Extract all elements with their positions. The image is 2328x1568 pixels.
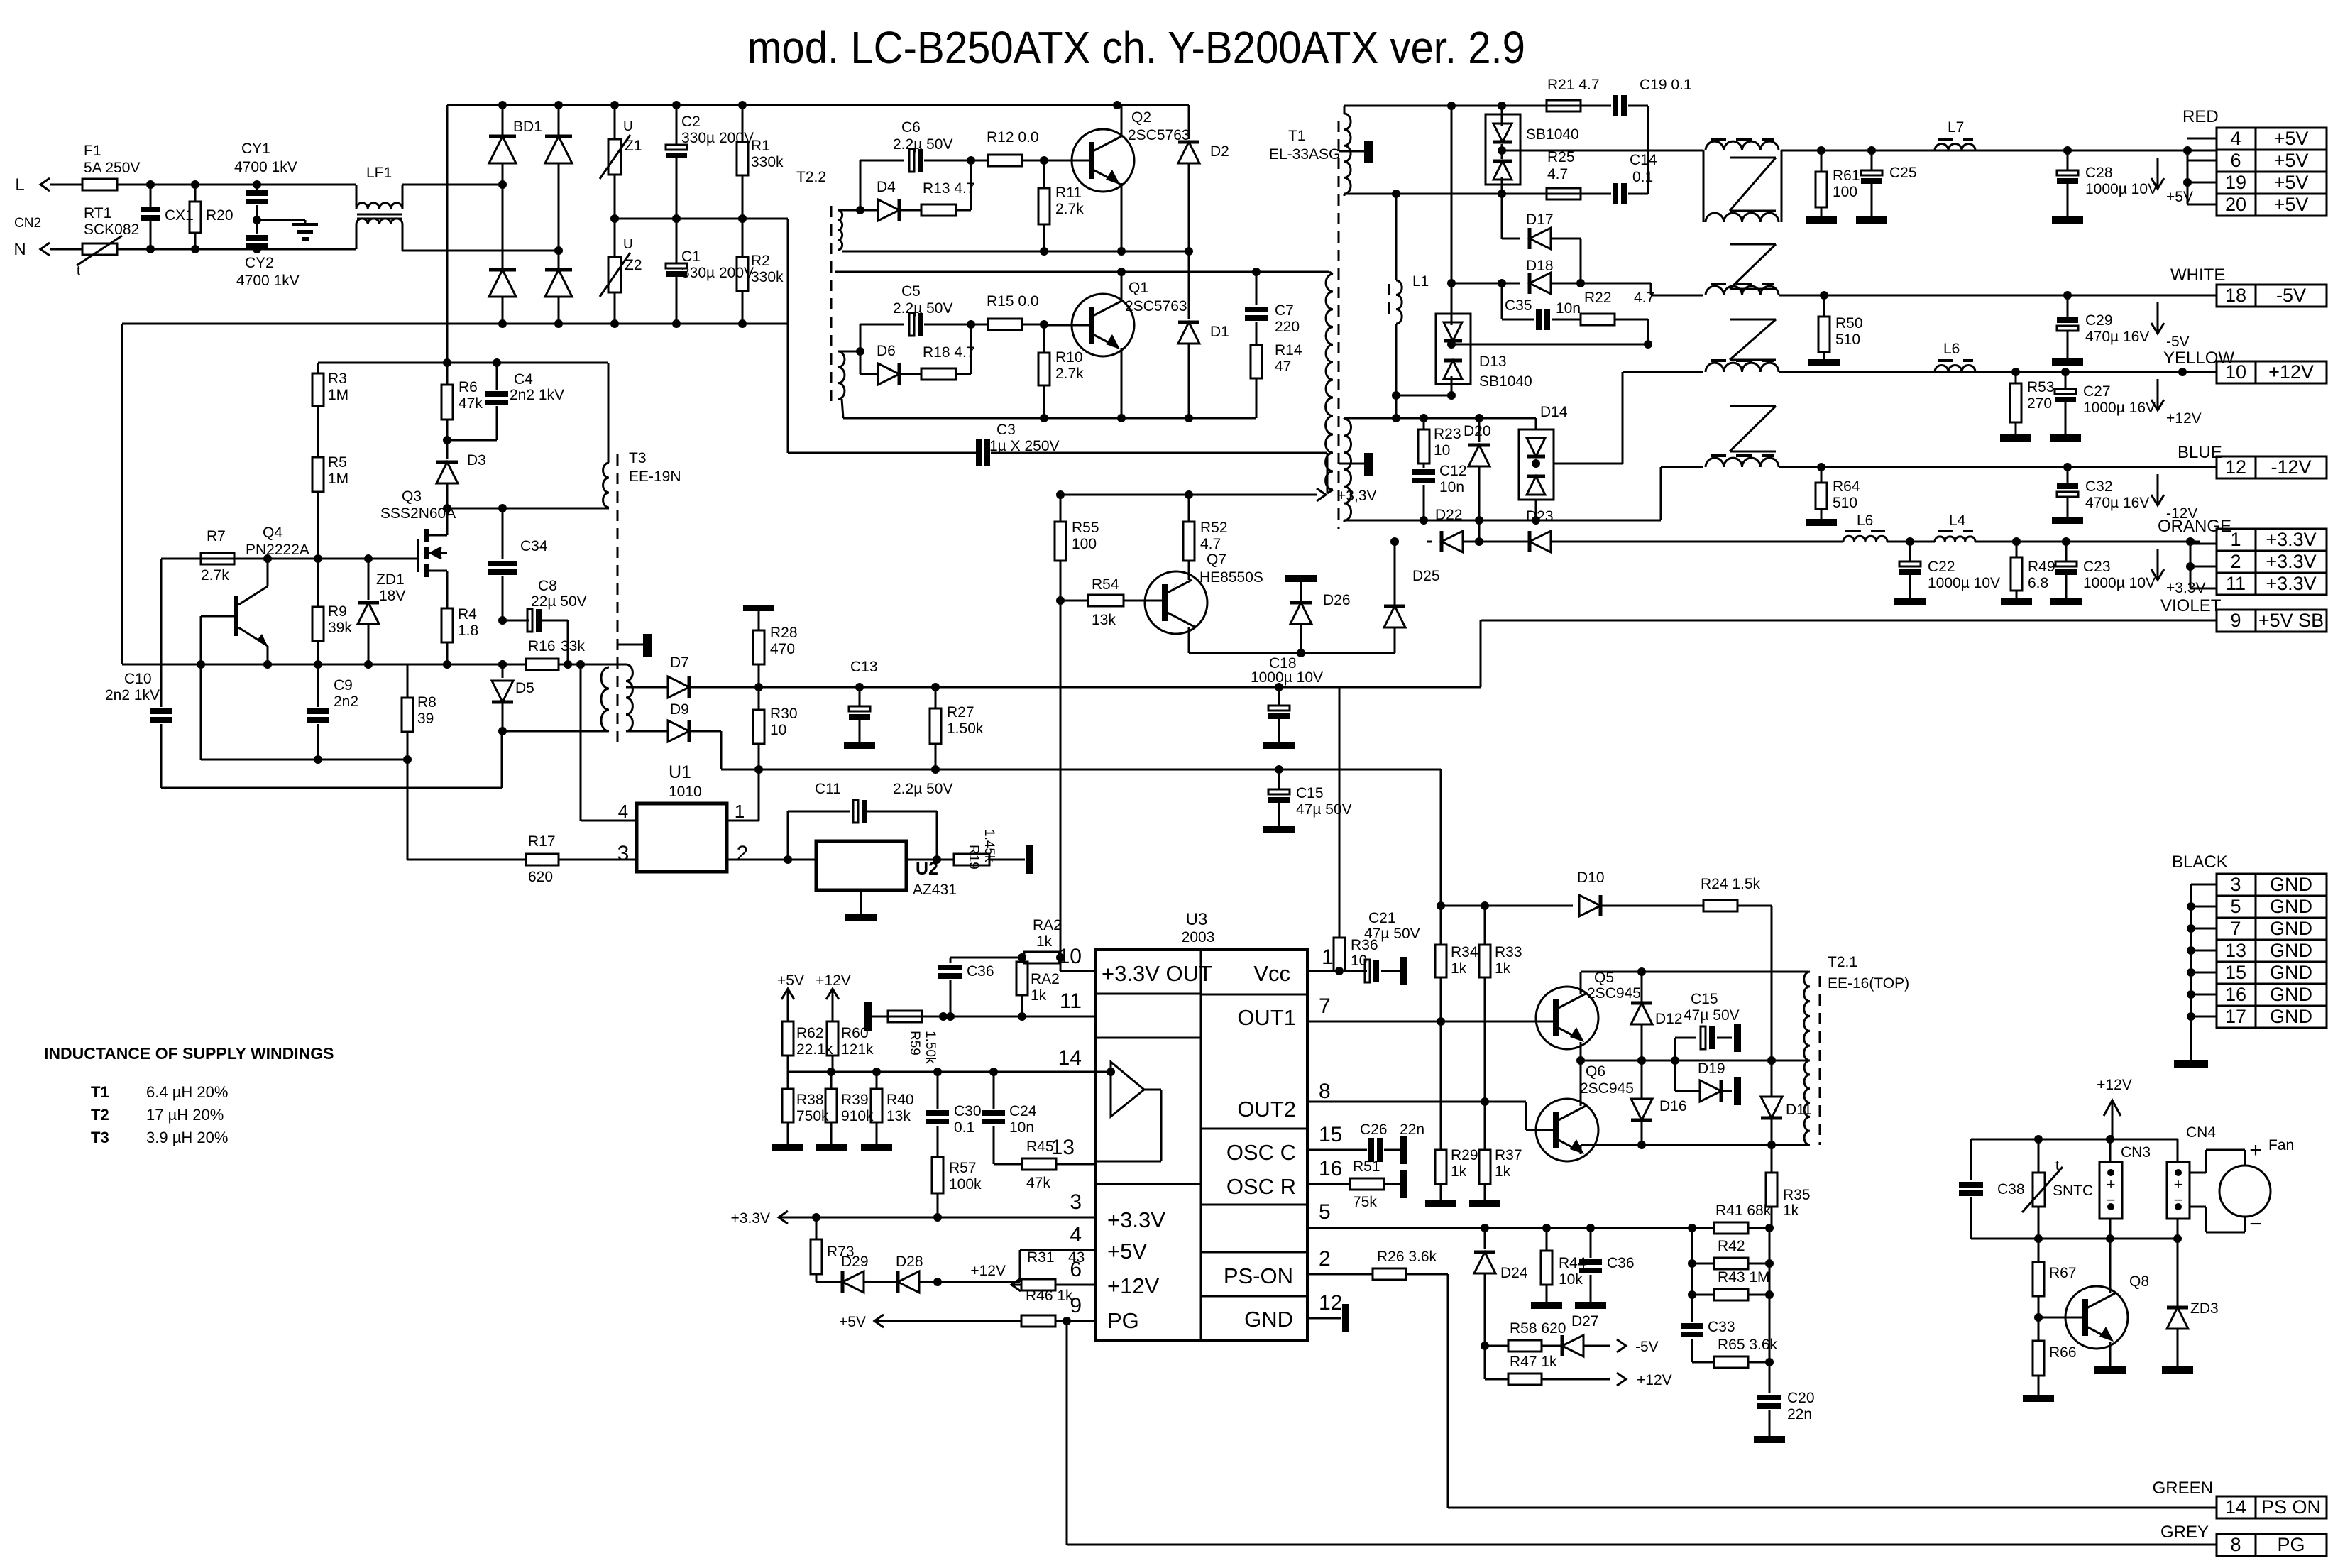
resistor R2 xyxy=(737,219,784,324)
svg-text:Q4: Q4 xyxy=(263,525,282,541)
resistor R51 xyxy=(1307,1158,1407,1210)
svg-text:470µ 16V: 470µ 16V xyxy=(2085,329,2149,345)
wire +3.3V rail xyxy=(1843,537,2200,546)
svg-text:16: 16 xyxy=(1319,1157,1342,1180)
svg-text:R12 0.0: R12 0.0 xyxy=(987,129,1039,146)
svg-text:1.45k: 1.45k xyxy=(982,829,996,862)
wire fan mid rail xyxy=(1971,1234,2182,1243)
svg-text:47: 47 xyxy=(1275,358,1291,375)
svg-text:D9: D9 xyxy=(670,701,689,718)
resistor R21 xyxy=(1547,77,1611,111)
svg-text:1µ X 250V: 1µ X 250V xyxy=(989,438,1060,454)
svg-text:1k: 1k xyxy=(1495,960,1511,977)
svg-text:RED: RED xyxy=(2182,107,2219,126)
svg-text:Q8: Q8 xyxy=(2129,1273,2149,1290)
svg-text:D14: D14 xyxy=(1540,404,1568,420)
svg-text:17 µH 20%: 17 µH 20% xyxy=(146,1106,224,1124)
svg-text:R52: R52 xyxy=(1200,520,1228,536)
resistor R5 xyxy=(312,454,348,559)
svg-text:2.7k: 2.7k xyxy=(201,567,229,583)
ic U1 xyxy=(617,762,749,872)
wire xyxy=(1651,283,1703,295)
resistor R44 xyxy=(1531,1228,1586,1309)
svg-text:22n: 22n xyxy=(1400,1122,1424,1138)
svg-text:CY2: CY2 xyxy=(245,255,274,271)
svg-text:-5V: -5V xyxy=(2276,285,2306,306)
svg-text:0.1: 0.1 xyxy=(954,1119,974,1136)
resistor R58 xyxy=(1485,1320,1566,1352)
svg-text:10k: 10k xyxy=(1559,1271,1583,1288)
wire xyxy=(727,769,759,821)
svg-text:1000µ 10V: 1000µ 10V xyxy=(2085,181,2158,197)
svg-text:39k: 39k xyxy=(328,620,352,636)
resistor R36 xyxy=(1334,686,1378,971)
svg-text:PG: PG xyxy=(2277,1534,2305,1555)
svg-text:+5V: +5V xyxy=(2274,128,2309,149)
svg-text:100: 100 xyxy=(1833,184,1857,200)
capacitor C24 xyxy=(982,1072,1037,1164)
resistor R64 xyxy=(1806,467,1860,526)
capacitor C36b xyxy=(1575,1228,1635,1309)
svg-text:R53: R53 xyxy=(2027,379,2055,395)
svg-text:C29: C29 xyxy=(2085,312,2113,329)
capacitor C23 xyxy=(2050,542,2156,605)
transformer T3 xyxy=(601,450,681,742)
svg-text:510: 510 xyxy=(1833,495,1857,511)
svg-text:D4: D4 xyxy=(877,179,896,195)
svg-text:R5: R5 xyxy=(328,454,347,471)
svg-text:R46 1k: R46 1k xyxy=(1026,1288,1073,1304)
svg-text:1000µ 16V: 1000µ 16V xyxy=(2083,400,2156,416)
resistor R41 xyxy=(1714,1202,1772,1234)
resistor R49 xyxy=(2001,542,2055,605)
svg-text:C38: C38 xyxy=(1997,1181,2025,1197)
svg-text:1: 1 xyxy=(1322,945,1334,969)
wire xyxy=(626,730,667,733)
svg-text:13: 13 xyxy=(1051,1136,1075,1159)
svg-text:R28: R28 xyxy=(770,625,798,641)
svg-text:SB1040: SB1040 xyxy=(1526,126,1579,143)
svg-text:D6: D6 xyxy=(877,343,896,359)
svg-text:47µ 50V: 47µ 50V xyxy=(1684,1007,1740,1024)
diode BD1-b xyxy=(545,105,572,251)
svg-text:+12V: +12V xyxy=(2268,361,2314,383)
svg-text:GND: GND xyxy=(2270,896,2312,917)
wire -5V rail xyxy=(1779,291,2217,300)
svg-text:39: 39 xyxy=(417,711,434,727)
wire +12V rail xyxy=(1779,368,2217,376)
svg-text:C28: C28 xyxy=(2085,165,2113,181)
svg-text:D29: D29 xyxy=(841,1254,869,1270)
wire pin10 xyxy=(1060,970,1095,972)
svg-text:19: 19 xyxy=(2225,172,2246,193)
capacitor CY2 xyxy=(236,216,300,289)
svg-text:L7: L7 xyxy=(1948,119,1964,136)
svg-text:AZ431: AZ431 xyxy=(913,882,957,898)
svg-text:RT1: RT1 xyxy=(84,205,111,221)
svg-text:5: 5 xyxy=(2230,896,2241,917)
diode BD1-c xyxy=(489,185,516,324)
svg-text:+5V: +5V xyxy=(839,1314,866,1330)
svg-text:R35: R35 xyxy=(1783,1187,1811,1203)
svg-text:R2: R2 xyxy=(751,253,770,269)
resistor R37 xyxy=(1469,1102,1522,1207)
transformer T1 lower sec xyxy=(1339,398,1536,529)
svg-text:1M: 1M xyxy=(328,387,348,403)
capacitor C20 xyxy=(1754,1390,1815,1443)
svg-text:C25: C25 xyxy=(1889,165,1917,181)
svg-text:2n2 1kV: 2n2 1kV xyxy=(105,687,160,703)
svg-text:C14: C14 xyxy=(1630,152,1657,168)
capacitor C5 xyxy=(860,283,975,351)
diode BD1-a xyxy=(489,105,516,185)
svg-text:D12: D12 xyxy=(1655,1011,1683,1027)
bridge BD1 label xyxy=(513,119,542,135)
resistor R40 xyxy=(861,1072,914,1151)
connector -5V pin xyxy=(2217,285,2327,307)
capacitor C11 xyxy=(788,781,953,864)
wire 5VSB line xyxy=(721,765,1441,774)
wire xyxy=(1661,467,1703,520)
svg-text:PG: PG xyxy=(1107,1308,1139,1333)
diode D19 xyxy=(1675,1038,1741,1105)
svg-text:6.8: 6.8 xyxy=(2028,575,2048,591)
svg-text:7: 7 xyxy=(2230,918,2241,939)
svg-text:7: 7 xyxy=(1319,994,1331,1018)
svg-text:GND: GND xyxy=(2270,984,2312,1005)
resistor R22 xyxy=(1556,290,1654,344)
arrow -5V xyxy=(2151,302,2190,350)
svg-text:R30: R30 xyxy=(770,706,798,722)
node RED xyxy=(2182,107,2219,126)
resistor R73 xyxy=(811,1217,855,1282)
resistor R33 xyxy=(1479,906,1522,1106)
svg-text:4: 4 xyxy=(618,801,628,822)
resistor R25 xyxy=(1547,149,1611,199)
svg-text:11: 11 xyxy=(1060,989,1082,1013)
title xyxy=(747,22,1525,73)
wire xyxy=(402,246,563,255)
svg-text:+3.3V: +3.3V xyxy=(2266,551,2316,572)
wire sec bot xyxy=(1344,190,1611,198)
svg-text:GND: GND xyxy=(2270,874,2312,895)
svg-text:33k: 33k xyxy=(561,638,585,654)
svg-text:470: 470 xyxy=(770,641,795,657)
wire pin11 line xyxy=(866,1012,1095,1021)
svg-text:4: 4 xyxy=(2230,128,2241,149)
wire xyxy=(1623,372,1703,464)
resistor R17 xyxy=(407,833,637,885)
resistor R27 xyxy=(930,687,984,774)
svg-text:C32: C32 xyxy=(2085,478,2113,495)
diode D11 xyxy=(1761,1060,1812,1145)
svg-text:CN2: CN2 xyxy=(14,216,41,231)
resistor R57 xyxy=(932,1157,982,1217)
resistor RA2b xyxy=(1016,958,1060,1016)
svg-text:R67: R67 xyxy=(2049,1265,2077,1281)
svg-text:D16: D16 xyxy=(1659,1098,1687,1114)
svg-text:HE8550S: HE8550S xyxy=(1199,569,1263,586)
resistor R12 xyxy=(971,129,1048,166)
wire xyxy=(727,855,816,864)
svg-text:5A 250V: 5A 250V xyxy=(84,160,140,176)
wire xyxy=(402,180,507,189)
node VIOLET xyxy=(2160,596,2222,615)
svg-text:+12V: +12V xyxy=(970,1263,1006,1279)
svg-text:C6: C6 xyxy=(901,119,921,136)
capacitor C14 xyxy=(1613,150,1657,204)
svg-text:15: 15 xyxy=(1319,1123,1342,1146)
svg-text:R51: R51 xyxy=(1353,1158,1380,1175)
capacitor C33 xyxy=(1681,1295,1735,1362)
svg-text:LF1: LF1 xyxy=(366,165,392,181)
node YELLOW xyxy=(2163,349,2234,368)
svg-text:+3,3V: +3,3V xyxy=(1337,488,1376,504)
svg-text:R60: R60 xyxy=(841,1025,869,1041)
wire xyxy=(1189,649,1395,657)
svg-text:t: t xyxy=(2055,1158,2060,1173)
note inductance xyxy=(44,1044,334,1146)
svg-text:Z2: Z2 xyxy=(625,257,642,273)
svg-text:5: 5 xyxy=(1319,1200,1331,1224)
svg-text:18: 18 xyxy=(2225,285,2246,306)
varistor Z2 xyxy=(600,219,642,324)
arrow +12V top xyxy=(816,972,851,1020)
resistor R13 xyxy=(899,160,975,216)
diode BD1-d xyxy=(545,251,572,324)
arrow +5V xyxy=(2151,158,2193,205)
svg-text:C2: C2 xyxy=(681,114,701,130)
svg-text:47k: 47k xyxy=(459,395,483,412)
connector +3.3V pins xyxy=(2186,529,2327,595)
wire drain node xyxy=(447,504,609,512)
svg-text:2.7k: 2.7k xyxy=(1055,201,1084,217)
capacitor C25 xyxy=(1856,150,1917,224)
inductor L1 xyxy=(1389,194,1429,395)
choke winding 2 xyxy=(1703,150,1821,222)
svg-text:ORANGE: ORANGE xyxy=(2158,517,2231,536)
capacitor C36a xyxy=(938,958,994,1016)
svg-text:R16: R16 xyxy=(528,638,556,654)
svg-text:C22: C22 xyxy=(1928,559,1955,575)
svg-text:OUT1: OUT1 xyxy=(1237,1005,1296,1030)
svg-text:330k: 330k xyxy=(751,154,784,170)
svg-text:C27: C27 xyxy=(2083,383,2111,400)
transformer T2.2 xyxy=(796,169,845,401)
capacitor CY1 xyxy=(234,141,297,220)
svg-text:D27: D27 xyxy=(1571,1313,1599,1329)
svg-text:T3: T3 xyxy=(91,1129,109,1146)
wire PS-ON green xyxy=(1448,1274,2217,1508)
svg-text:D7: D7 xyxy=(670,654,689,671)
resistor R61 xyxy=(1806,150,1860,224)
resistor R34 xyxy=(1435,906,1478,1026)
inductor L6a xyxy=(1935,341,1975,372)
wire pin6 line xyxy=(1011,1284,1095,1286)
svg-text:2.2µ 50V: 2.2µ 50V xyxy=(893,136,953,153)
svg-text:10n: 10n xyxy=(1556,300,1581,317)
connector GND pins xyxy=(2174,874,2327,1068)
svg-text:2: 2 xyxy=(2230,551,2241,572)
svg-text:D3: D3 xyxy=(467,452,486,468)
svg-text:12: 12 xyxy=(1319,1291,1342,1315)
svg-text:R14: R14 xyxy=(1275,342,1302,358)
svg-text:+12V: +12V xyxy=(816,972,851,989)
resistor R67 xyxy=(2033,1239,2077,1322)
svg-text:PS-ON: PS-ON xyxy=(1224,1263,1293,1288)
resistor R53 xyxy=(2000,372,2055,442)
wire xyxy=(838,206,864,214)
wire xyxy=(201,755,412,764)
capacitor C34 xyxy=(488,508,548,625)
svg-text:T1: T1 xyxy=(1288,128,1306,144)
svg-text:R6: R6 xyxy=(459,379,478,395)
diode D12 xyxy=(1631,972,1683,1060)
svg-text:1.8: 1.8 xyxy=(458,623,478,639)
svg-text:VIOLET: VIOLET xyxy=(2160,596,2222,615)
svg-text:R64: R64 xyxy=(1833,478,1860,495)
fan motor xyxy=(2190,1137,2294,1236)
svg-text:CN4: CN4 xyxy=(2186,1124,2216,1141)
inductor L4 xyxy=(1935,512,1975,542)
svg-text:D28: D28 xyxy=(896,1254,923,1270)
svg-text:22n: 22n xyxy=(1787,1406,1812,1422)
svg-text:D24: D24 xyxy=(1500,1265,1528,1281)
transistor Q6 xyxy=(1536,1056,1634,1161)
svg-text:1000µ 10V: 1000µ 10V xyxy=(1251,669,1323,686)
svg-text:Q1: Q1 xyxy=(1129,280,1148,296)
resistor R60 xyxy=(827,1020,874,1072)
svg-text:F1: F1 xyxy=(84,143,101,159)
svg-text:D23: D23 xyxy=(1526,508,1554,525)
svg-text:470µ 16V: 470µ 16V xyxy=(2085,495,2149,511)
svg-text:20: 20 xyxy=(2225,194,2246,215)
transistor Q8 xyxy=(2038,1239,2149,1374)
svg-text:D1: D1 xyxy=(1210,324,1229,340)
svg-text:C21: C21 xyxy=(1368,910,1396,926)
diode D27 xyxy=(1562,1313,1659,1356)
svg-text:GND: GND xyxy=(1244,1307,1293,1332)
wire xyxy=(117,180,356,189)
resistor R26 xyxy=(1373,1249,1448,1280)
capacitor C4 xyxy=(447,363,564,440)
wire OUT2 xyxy=(1307,1102,1556,1130)
svg-text:D22: D22 xyxy=(1435,507,1463,523)
svg-text:D26: D26 xyxy=(1323,592,1351,608)
diode D4 xyxy=(860,179,899,221)
resistor R14 xyxy=(1251,342,1302,418)
svg-text:D5: D5 xyxy=(515,680,534,696)
capacitor C12 xyxy=(1412,463,1467,520)
arrow +12V fan xyxy=(2097,1077,2132,1139)
choke winding +5V xyxy=(1706,139,1779,150)
svg-text:+12V: +12V xyxy=(1637,1372,1672,1388)
capacitor C15b xyxy=(1675,991,1741,1060)
svg-text:4700 1kV: 4700 1kV xyxy=(236,273,300,289)
capacitor C29 xyxy=(2052,295,2149,366)
wire T2.1 bot rail xyxy=(1581,1141,1808,1149)
resistor R46 xyxy=(839,1288,1073,1330)
wire PS-ON xyxy=(1307,1273,1373,1276)
svg-text:3: 3 xyxy=(617,842,630,865)
svg-text:R4: R4 xyxy=(458,606,477,623)
resistor R39 xyxy=(816,1072,874,1151)
resistor R29 xyxy=(1425,1021,1478,1207)
svg-text:R40: R40 xyxy=(886,1092,914,1108)
svg-text:CN3: CN3 xyxy=(2121,1144,2151,1161)
svg-text:R22: R22 xyxy=(1584,290,1612,306)
capacitor C22 xyxy=(1894,542,2000,605)
svg-text:C12: C12 xyxy=(1439,463,1467,479)
svg-text:R54: R54 xyxy=(1092,576,1119,593)
capacitor CX1 xyxy=(141,185,194,249)
wire HV drop xyxy=(443,105,451,367)
svg-text:R19: R19 xyxy=(966,845,981,870)
fuse F1 xyxy=(82,143,140,190)
svg-text:2SC945: 2SC945 xyxy=(1580,1080,1634,1097)
svg-text:1.50k: 1.50k xyxy=(947,720,984,737)
connector PS ON pin xyxy=(2217,1496,2327,1518)
capacitor C3 xyxy=(788,422,1327,493)
svg-text:BLUE: BLUE xyxy=(2178,443,2222,462)
svg-text:1k: 1k xyxy=(1451,1163,1467,1180)
svg-text:-12V: -12V xyxy=(2271,456,2311,478)
svg-text:9: 9 xyxy=(2230,610,2241,631)
svg-text:R26 3.6k: R26 3.6k xyxy=(1377,1249,1437,1265)
svg-text:121k: 121k xyxy=(841,1041,874,1058)
connector 5VSB pin xyxy=(2217,610,2327,632)
svg-text:CY1: CY1 xyxy=(241,141,270,157)
wire xyxy=(1648,150,1703,152)
svg-text:+12V: +12V xyxy=(1107,1273,1160,1298)
svg-text:11: 11 xyxy=(2226,573,2246,594)
svg-text:C15: C15 xyxy=(1691,991,1718,1007)
diode D24 xyxy=(1474,1228,1528,1350)
wire xyxy=(581,664,637,821)
svg-text:T2.2: T2.2 xyxy=(796,169,826,185)
resistor R45 xyxy=(994,1139,1095,1191)
svg-text:1.50k: 1.50k xyxy=(923,1031,938,1064)
wire sec top xyxy=(1344,102,1611,114)
svg-text:ZD3: ZD3 xyxy=(2190,1300,2219,1317)
svg-text:BD1: BD1 xyxy=(513,119,542,135)
svg-text:17: 17 xyxy=(2225,1006,2246,1027)
wire node 511 xyxy=(318,358,608,463)
svg-text:R55: R55 xyxy=(1072,520,1099,536)
resistor R18 xyxy=(899,324,975,380)
svg-text:U: U xyxy=(623,237,633,252)
svg-text:75k: 75k xyxy=(1353,1194,1377,1210)
arrow +3.3V left xyxy=(731,1210,788,1227)
svg-text:T1: T1 xyxy=(91,1083,109,1101)
svg-text:GND: GND xyxy=(2270,918,2312,939)
svg-text:R1: R1 xyxy=(751,138,770,154)
svg-text:SB1040: SB1040 xyxy=(1479,373,1532,390)
wire fan top rail xyxy=(1971,1135,2178,1144)
svg-text:10: 10 xyxy=(770,722,786,738)
resistor R43 xyxy=(1688,1263,1774,1300)
svg-text:13k: 13k xyxy=(1092,612,1116,628)
resistor R47 xyxy=(1485,1346,1672,1388)
resistor R15 xyxy=(971,293,1048,330)
svg-text:910k: 910k xyxy=(841,1108,874,1124)
svg-text:GREY: GREY xyxy=(2160,1523,2209,1542)
node CN2 xyxy=(14,216,41,231)
svg-text:14: 14 xyxy=(1058,1046,1082,1070)
svg-text:C10: C10 xyxy=(124,671,152,687)
svg-text:+5V SB: +5V SB xyxy=(2258,610,2324,631)
capacitor C9 xyxy=(307,664,358,760)
